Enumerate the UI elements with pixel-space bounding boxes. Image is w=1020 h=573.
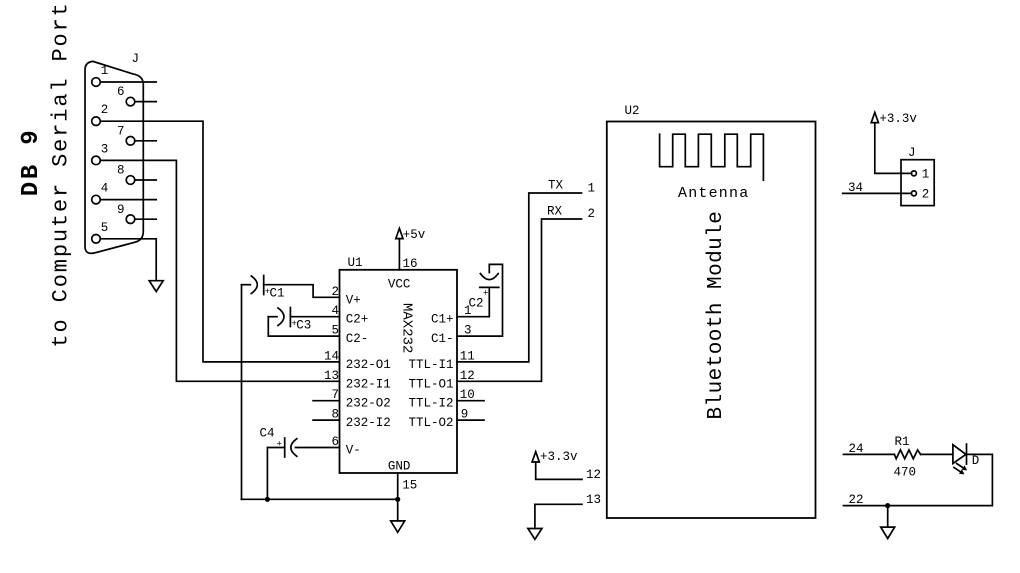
svg-text:34: 34 xyxy=(848,181,863,195)
svg-text:U1: U1 xyxy=(348,256,363,270)
module U2 bluetooth box xyxy=(607,122,816,519)
svg-text:+3.3v: +3.3v xyxy=(540,450,578,464)
svg-text:J: J xyxy=(908,146,916,160)
svg-text:+3.3v: +3.3v xyxy=(879,112,917,126)
wire C1 to ground bus xyxy=(241,285,243,500)
wire pin7 stub xyxy=(135,140,156,142)
svg-text:470: 470 xyxy=(894,465,917,479)
svg-text:14: 14 xyxy=(324,349,339,363)
svg-text:Bluetooth Module: Bluetooth Module xyxy=(705,211,728,420)
junction dot C4 ground xyxy=(265,497,270,502)
svg-text:J: J xyxy=(132,52,140,66)
svg-text:1: 1 xyxy=(101,64,109,78)
pin 5 circle xyxy=(92,235,101,244)
svg-text:6: 6 xyxy=(117,85,125,99)
pin 2 circle xyxy=(92,117,101,126)
svg-text:D: D xyxy=(972,454,980,468)
svg-text:+: + xyxy=(483,289,488,299)
wire C1 to V+ xyxy=(264,285,340,298)
LED D xyxy=(953,445,966,464)
svg-text:TTL-I1: TTL-I1 xyxy=(409,358,454,372)
ground symbol main xyxy=(397,499,399,521)
svg-text:Antenna: Antenna xyxy=(678,185,749,202)
wire bluetooth pin13 to ground xyxy=(535,504,582,528)
svg-text:5: 5 xyxy=(101,221,109,235)
svg-text:+5v: +5v xyxy=(403,228,426,242)
svg-text:C1: C1 xyxy=(270,287,285,301)
svg-text:C2: C2 xyxy=(469,297,484,311)
wire R1 to LED xyxy=(921,453,953,455)
wire TTL-O1 to RX xyxy=(457,219,582,381)
wire pin9 stub xyxy=(135,218,156,220)
svg-text:DB 9: DB 9 xyxy=(18,127,45,196)
ground symbol bluetooth xyxy=(528,529,542,540)
svg-text:2: 2 xyxy=(922,188,930,202)
wire LED to net 22 xyxy=(844,454,993,505)
pin 8 circle xyxy=(126,176,135,185)
wire TTL-I1 to TX xyxy=(457,193,582,362)
wire pin5 to ground xyxy=(100,239,156,281)
svg-text:13: 13 xyxy=(324,369,339,383)
svg-text:GND: GND xyxy=(388,460,411,474)
svg-text:V-: V- xyxy=(346,444,361,458)
resistor R1 xyxy=(894,450,920,459)
capacitor C1 xyxy=(242,284,251,286)
svg-text:V+: V+ xyxy=(346,293,361,307)
wire C4 right to V- xyxy=(296,447,340,449)
svg-text:C2-: C2- xyxy=(346,332,369,346)
wire pin1 stub xyxy=(100,81,156,83)
svg-text:C4: C4 xyxy=(260,427,275,441)
LED arrows xyxy=(957,464,965,469)
wire C2 top to C1- xyxy=(457,264,503,336)
svg-text:TTL-O2: TTL-O2 xyxy=(409,416,454,430)
connector J right box xyxy=(901,160,934,206)
svg-text:22: 22 xyxy=(849,493,864,507)
svg-text:7: 7 xyxy=(117,124,125,138)
wire pin3 to MAX232 pin13 xyxy=(100,160,339,381)
svg-text:3: 3 xyxy=(101,142,109,156)
svg-text:R1: R1 xyxy=(895,435,910,449)
wire pin2 to MAX232 pin14 xyxy=(100,121,339,362)
ground symbol DB9 pin5 xyxy=(149,281,163,292)
svg-text:TTL-O1: TTL-O1 xyxy=(409,377,454,391)
svg-text:C1-: C1- xyxy=(431,332,454,346)
pin 7 circle xyxy=(126,137,135,146)
svg-text:MAX232: MAX232 xyxy=(399,303,415,353)
antenna symbol xyxy=(660,134,764,180)
wire C2 bottom to C1+ xyxy=(457,287,489,316)
svg-text:232-I1: 232-I1 xyxy=(346,377,391,391)
wire pin8 stub xyxy=(135,179,156,181)
power +5v symbol xyxy=(398,239,400,270)
pin 1 circle xyxy=(92,78,101,87)
svg-text:RX: RX xyxy=(547,205,563,219)
op-amp U1 MAX232 box xyxy=(340,270,458,473)
junction dot pin15 ground xyxy=(395,497,400,502)
connector J pin2 circle xyxy=(911,191,916,196)
capacitor C2 xyxy=(480,274,498,280)
svg-text:24: 24 xyxy=(849,442,864,456)
svg-text:C3: C3 xyxy=(296,319,311,333)
svg-text:C2+: C2+ xyxy=(346,313,369,327)
pin 3 circle xyxy=(92,156,101,165)
svg-text:1: 1 xyxy=(588,182,596,196)
svg-text:232-I2: 232-I2 xyxy=(346,416,391,430)
pin 9 circle xyxy=(126,215,135,224)
svg-text:9: 9 xyxy=(117,203,125,217)
wire pin8 stub MAX232 xyxy=(313,419,339,421)
svg-text:13: 13 xyxy=(586,493,601,507)
junction dot net22 ground xyxy=(885,503,890,508)
wire C3 to C2- xyxy=(268,317,339,336)
power +3.3v symbol right xyxy=(875,123,912,174)
svg-text:1: 1 xyxy=(922,168,930,182)
svg-text:2: 2 xyxy=(101,103,109,117)
connector J DB9 outline xyxy=(85,61,143,253)
wire pin4 stub xyxy=(100,199,156,201)
wire ground bus xyxy=(242,498,398,500)
power +3.3v symbol left xyxy=(536,462,582,479)
svg-text:232-O2: 232-O2 xyxy=(346,397,391,411)
svg-text:8: 8 xyxy=(117,164,125,178)
svg-text:C1+: C1+ xyxy=(431,313,454,327)
svg-text:VCC: VCC xyxy=(388,278,411,292)
svg-text:4: 4 xyxy=(101,182,109,196)
svg-text:16: 16 xyxy=(403,257,418,271)
ground symbol LED xyxy=(887,506,889,527)
pin 6 circle xyxy=(126,97,135,106)
wire net 24 xyxy=(844,453,895,455)
wire pin7 stub MAX232 xyxy=(313,400,339,402)
svg-text:TX: TX xyxy=(548,179,564,193)
svg-text:15: 15 xyxy=(402,479,417,493)
capacitor C3 xyxy=(268,316,277,318)
wire net 34 xyxy=(843,192,912,194)
wire pin6 stub xyxy=(135,101,156,103)
wire pin10 stub MAX232 xyxy=(457,400,484,402)
svg-text:12: 12 xyxy=(586,468,601,482)
wire pin9 stub MAX232 xyxy=(457,419,484,421)
svg-text:232-O1: 232-O1 xyxy=(346,358,391,372)
wire C3 to C2+ xyxy=(290,316,339,318)
pin 4 circle xyxy=(92,195,101,204)
connector J pin1 circle xyxy=(911,171,916,176)
wire C4 left to ground bus xyxy=(267,448,284,500)
svg-text:TTL-I2: TTL-I2 xyxy=(409,397,454,411)
svg-text:2: 2 xyxy=(588,207,596,221)
svg-text:to Computer Serial Port: to Computer Serial Port xyxy=(49,1,74,347)
wire GND pin15 xyxy=(397,473,399,499)
svg-text:U2: U2 xyxy=(625,104,640,118)
